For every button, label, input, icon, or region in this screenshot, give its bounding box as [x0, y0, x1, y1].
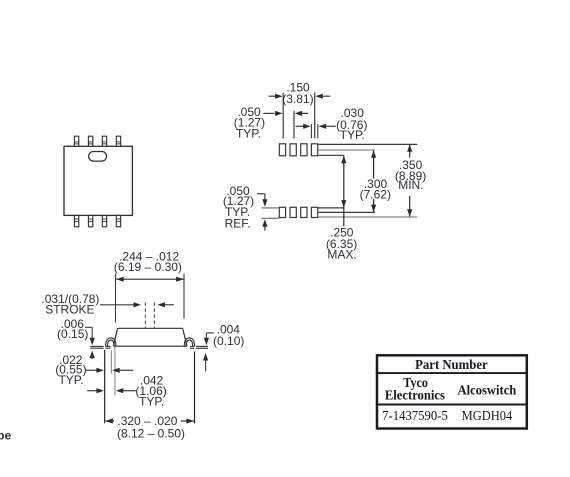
left gull-wing lead — [90, 338, 116, 348]
pad row bottom: pad 8 — [311, 207, 317, 217]
dimension .006 up arrow below foot — [90, 351, 95, 359]
svg-text:MIN.: MIN. — [398, 178, 423, 192]
extension line P (for .022) — [110, 350, 112, 373]
svg-text:STROKE: STROKE — [45, 303, 94, 317]
pin 6 bottom — [88, 215, 92, 226]
dimension .244: left extension line — [115, 274, 117, 323]
pad row top: pad 3 — [301, 144, 307, 156]
dimension .042 arrows — [87, 388, 136, 393]
dimension .300 lower segment with down arrow — [371, 199, 376, 212]
dimension .150 (3.81): extension line C — [314, 93, 316, 139]
stroke leader arrow right — [100, 302, 141, 307]
pin 2 top — [88, 136, 92, 146]
dimension .030: right arrow — [319, 124, 336, 129]
svg-text:7-1437590-5: 7-1437590-5 — [382, 409, 448, 424]
svg-text:TYP.: TYP. — [58, 373, 83, 387]
pad row bottom: pad 6 — [290, 207, 296, 217]
dimension .050 REF up arrow below — [262, 219, 267, 231]
svg-text:(6.19 – 0.30): (6.19 – 0.30) — [114, 260, 182, 274]
dimension .050 (1.27) TYP: extension line B — [293, 111, 295, 139]
label .022 (0.55) TYP. — [55, 353, 86, 387]
dimension .030: left arrow — [296, 124, 311, 129]
switch body side view — [113, 328, 187, 346]
svg-text:(3.81): (3.81) — [282, 92, 313, 106]
pad row top: pad 1 — [279, 144, 285, 156]
table cell: MGDH04 — [462, 409, 513, 424]
dimension .320 line with outward arrows — [105, 418, 194, 423]
label .050 (1.27) TYP. — [234, 105, 265, 140]
pad row bottom: pad 5 — [279, 207, 285, 217]
pin 7 bottom — [102, 215, 106, 226]
pin 3 top — [102, 136, 106, 146]
pin 8 bottom — [116, 215, 120, 226]
label .042 (1.06) TYP. — [135, 373, 166, 408]
dimension .150 (3.81): extension line A — [282, 93, 284, 139]
dimension .350 lower segment with down arrow — [407, 196, 412, 217]
svg-text:(8.12 – 0.50): (8.12 – 0.50) — [117, 427, 185, 441]
label .050 (1.27) TYP. REF. — [223, 184, 254, 231]
stroke dashed line left — [144, 303, 146, 328]
extension line left of bottom row (lower) — [262, 217, 280, 219]
dimension .030: extension line pad4 left edge — [310, 124, 312, 139]
stroke left-pointing arrow — [157, 302, 173, 307]
dimension .350 upper segment with up arrow — [407, 144, 412, 157]
extension line Q (for .042) — [114, 347, 116, 396]
extension line V1 right (to .320 dim) — [194, 352, 196, 424]
dimension .300 upper segment with up arrow — [371, 150, 376, 178]
svg-text:TYP.: TYP. — [139, 394, 164, 408]
svg-text:(0.10): (0.10) — [213, 334, 244, 348]
wire: top row lower trace line — [318, 154, 344, 156]
label .150 (3.81) — [282, 81, 313, 107]
dimension .050 REF leader elbow and down arrow — [257, 194, 268, 207]
dimension .150: left arrow — [269, 94, 283, 99]
svg-text:Part Number: Part Number — [415, 358, 488, 373]
table cell: 7-1437590-5 — [382, 409, 448, 424]
label .004 (0.10) — [213, 322, 244, 348]
pad row bottom: pad 7 — [301, 207, 307, 217]
label .030 (0.76) TYP. — [336, 106, 367, 142]
dimension .050: right arrow at line B — [295, 111, 309, 116]
svg-text:MAX.: MAX. — [327, 248, 356, 262]
svg-text:be: be — [0, 428, 11, 442]
svg-text:TYP.: TYP. — [340, 128, 365, 142]
table header: Part Number — [415, 358, 488, 373]
dimension .244 line with outward arrows — [116, 277, 184, 282]
dimension .004 bracket and down arrow — [204, 333, 214, 345]
label .320 - .020 (8.12 - 0.50) — [117, 414, 185, 440]
pin 1 top — [74, 136, 78, 146]
part number table frame — [376, 355, 527, 428]
label .006 (0.15) — [57, 317, 88, 341]
svg-text:TYP.: TYP. — [236, 127, 261, 141]
pad row top: pad 2 — [290, 144, 296, 156]
svg-text:(7.62): (7.62) — [360, 187, 391, 201]
wire: top row upper trace line — [318, 143, 417, 145]
svg-text:(0.15): (0.15) — [57, 327, 88, 341]
svg-text:MGDH04: MGDH04 — [462, 409, 513, 424]
dimension .250 vertical line with arrows — [341, 156, 346, 227]
cropped page text fragment "be" at left edge — [0, 428, 11, 442]
dimension .244: right extension line — [183, 274, 185, 319]
pin 4 top — [116, 136, 120, 146]
extension line left of bottom row (upper) — [262, 207, 280, 209]
dimension .030: extension line pad4 right edge — [317, 124, 319, 139]
svg-text:Electronics: Electronics — [385, 389, 445, 404]
svg-text:Alcoswitch: Alcoswitch — [458, 383, 517, 398]
label .300 (7.62) — [360, 177, 391, 202]
label .031/(0.78) STROKE — [41, 292, 99, 316]
label .244 - .012 (6.19 - 0.30) — [114, 249, 182, 274]
dimension .050: leader arrow from label — [263, 111, 282, 116]
svg-text:REF.: REF. — [225, 217, 251, 231]
table cell: Tyco Electronics — [385, 376, 445, 404]
wire: bottom row lower trace line — [318, 216, 417, 218]
extension line V1 left (to .320 dim) — [104, 350, 106, 424]
pin 5 bottom — [74, 215, 78, 226]
label .250 (6.35) MAX. — [326, 226, 357, 262]
dimension .022 arrows — [86, 368, 134, 373]
dimension .004 up arrow below foot — [203, 353, 208, 372]
right gull-wing lead — [184, 338, 208, 348]
label .350 (8.89) MIN. — [395, 158, 426, 192]
dimension .006 bracket and down arrow — [85, 327, 95, 345]
pad row top: pad 4 — [311, 144, 317, 156]
actuator slot oval — [89, 152, 107, 162]
wire: bottom row upper trace line — [318, 207, 344, 209]
wire: top row middle trace line — [318, 149, 375, 151]
wire: bottom row middle trace line — [318, 211, 375, 213]
table cell: Alcoswitch — [458, 383, 517, 398]
switch body top view — [64, 146, 132, 215]
stroke dashed line right — [153, 303, 155, 328]
dimension .150: right arrow — [315, 94, 330, 99]
